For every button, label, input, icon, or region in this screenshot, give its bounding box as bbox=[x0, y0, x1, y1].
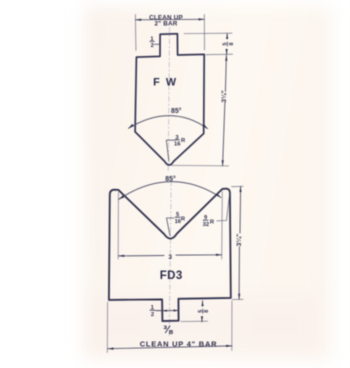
die FD3 centerline bbox=[169, 181, 171, 337]
dimension 5/8 tang height: down arrow bbox=[226, 49, 228, 54]
svg-text:32: 32 bbox=[203, 222, 209, 228]
dimension 3-1/4 die height: dimension line bbox=[239, 187, 241, 300]
dimension 3-1/4 die height: bottom extension line bbox=[232, 298, 243, 300]
dimension 5/8 tang depth: up arrow bbox=[201, 301, 203, 307]
die arc left arrow bbox=[119, 195, 125, 199]
die 85 degree dimension arc bbox=[119, 182, 221, 200]
svg-text:2: 2 bbox=[151, 312, 154, 318]
dimension text 5/8 bottom rotated bbox=[198, 309, 210, 313]
dimension 3 groove width: right arrow bbox=[216, 254, 222, 256]
dimension clean-up 4in bar: right arrow bbox=[226, 345, 232, 347]
dimension 5/8 tang depth: down arrow bbox=[201, 316, 203, 322]
dimension 3-1/4 die height: top extension line bbox=[232, 185, 244, 187]
punch FW outline bbox=[135, 34, 204, 165]
dimension 5/8 tang height: middle extension line bbox=[206, 53, 233, 56]
dimension 1/2 tang width: leader line bbox=[154, 43, 160, 45]
dimension 5/8 tang depth: dimension line bbox=[201, 301, 204, 322]
svg-text:R: R bbox=[181, 216, 186, 222]
dimension clean-up 4in bar: left arrow bbox=[108, 348, 114, 350]
punch arc left arrow bbox=[129, 124, 134, 128]
die corner radius 9/32 R label bbox=[203, 215, 215, 228]
dimension clean-up 2in bar: right arrow bbox=[199, 18, 205, 20]
svg-text:3¼": 3¼" bbox=[235, 234, 243, 247]
dimension text 3-1/4 rotated bbox=[220, 90, 228, 102]
dimension 3 groove width: left arrow bbox=[118, 255, 124, 257]
dimension clean-up 4in bar: dimension line bbox=[108, 346, 232, 349]
dimension 3-1/4 punch height: up arrow bbox=[225, 55, 227, 61]
dimension 3/8 tang width: left arrow bbox=[162, 310, 167, 312]
dimension 3-1/4 punch height: down arrow bbox=[222, 160, 224, 166]
dimension 5/8 tang height: up arrow bbox=[226, 34, 228, 40]
punch FW centerline bbox=[168, 28, 169, 172]
dimension clean-up 2in bar: right extension line bbox=[203, 15, 205, 51]
dimension 3/8 tang width: dimension line bbox=[157, 310, 179, 312]
dimension clean-up 2in bar: dimension line bbox=[135, 18, 204, 21]
dimension 5/8 tang height: dimension line bbox=[226, 34, 229, 55]
punch tip radius leader bbox=[166, 140, 174, 161]
punch tip radius 3/16 R label bbox=[174, 135, 186, 148]
svg-text:8: 8 bbox=[229, 42, 235, 45]
die arc right arrow bbox=[216, 193, 221, 197]
dimension clean-up 4in bar: right extension line bbox=[231, 301, 233, 351]
dimension clean-up 4in bar: left extension line bbox=[106, 302, 108, 353]
svg-text:CLEAN UP 4" BAR: CLEAN UP 4" BAR bbox=[140, 340, 218, 349]
svg-text:⅜: ⅜ bbox=[163, 324, 173, 336]
dimension 3 groove width: dimension line bbox=[118, 255, 221, 256]
svg-text:R: R bbox=[210, 220, 215, 226]
die FD3 outline bbox=[109, 189, 231, 321]
svg-text:R: R bbox=[181, 138, 186, 144]
die groove radius leader bbox=[167, 218, 175, 236]
punch 85 degree dimension arc bbox=[129, 116, 208, 129]
dimension clean-up 2in bar: left arrow bbox=[135, 19, 141, 21]
dimension 3-1/4 punch height: bottom extension line from tip bbox=[172, 164, 229, 167]
dimension 5/8 tang height: top extension line bbox=[184, 32, 232, 34]
dimension text 3-1/4 rotated die bbox=[235, 234, 243, 247]
dimension 1/2 die tang: leader line bbox=[155, 310, 163, 312]
svg-text:85°: 85° bbox=[171, 107, 182, 115]
dimension 5/8 tang depth: extension line bbox=[181, 320, 208, 322]
svg-text:3: 3 bbox=[168, 254, 172, 261]
dimension 1/2 die tang: fraction label bbox=[150, 305, 155, 318]
dimension 3 groove width: left extension line bbox=[117, 193, 119, 260]
dimension clean-up 2in bar: left extension line bbox=[134, 15, 137, 51]
svg-text:3¼": 3¼" bbox=[220, 90, 228, 102]
dimension 3-1/4 punch height: dimension line bbox=[223, 55, 227, 166]
dimension text 5/8 rotated bbox=[222, 42, 234, 46]
dimension 3 groove width: right extension line bbox=[221, 192, 224, 260]
svg-text:FD3: FD3 bbox=[160, 270, 183, 282]
svg-text:2" BAR: 2" BAR bbox=[154, 21, 177, 28]
dimension 3-1/4 die height: up arrow bbox=[239, 187, 241, 193]
svg-text:F W: F W bbox=[153, 77, 178, 89]
svg-text:2: 2 bbox=[151, 43, 154, 49]
punch arc right arrow bbox=[202, 124, 207, 129]
dimension 3-1/4 die height: down arrow bbox=[238, 294, 240, 300]
die corner radius leader bbox=[217, 192, 230, 221]
dimension 3/8 tang width: right arrow bbox=[174, 309, 179, 311]
svg-text:85°: 85° bbox=[165, 175, 176, 183]
die groove radius 5/16 R label bbox=[175, 212, 186, 225]
dimension 1/2 tang width: fraction label bbox=[150, 36, 155, 49]
svg-text:8: 8 bbox=[204, 310, 210, 313]
